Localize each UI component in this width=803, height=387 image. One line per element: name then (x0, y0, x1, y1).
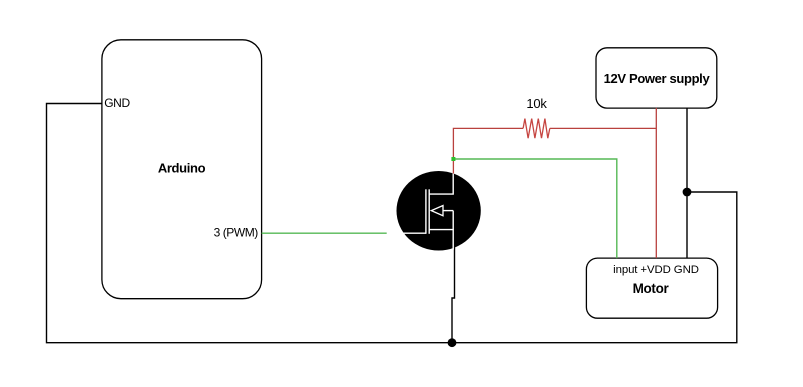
wire +12V: power supply to Motor +VDD pin (red) (655, 108, 657, 258)
Q1 gate bar (425, 189, 427, 234)
Q1 drain connection (top) (429, 174, 453, 195)
pin label GND (Arduino) (104, 96, 130, 110)
block U1 Arduino (102, 40, 262, 299)
wire drain node to Motor input pin (green) (453, 159, 616, 258)
Q1 body arrow (431, 206, 453, 216)
svg-text:Arduino: Arduino (158, 160, 206, 175)
Q1 gate lead (404, 232, 426, 234)
svg-text:GND: GND (104, 96, 130, 110)
junction: source to ground bus (448, 338, 457, 347)
wire power supply GND down to Motor GND pin (686, 108, 688, 258)
Q1 source connection (bottom) (429, 211, 453, 250)
wire GND: Arduino GND left, down, along bottom, up right side to node (47, 104, 737, 343)
label Motor (633, 281, 670, 296)
svg-text:Motor: Motor (633, 281, 670, 296)
wire gate: Arduino pin 3 (PWM) to MOSFET gate (green) (262, 232, 387, 234)
svg-text:input +VDD GND: input +VDD GND (613, 264, 699, 276)
svg-text:12V Power supply: 12V Power supply (604, 71, 711, 86)
label Arduino (158, 160, 206, 175)
svg-text:3 (PWM): 3 (PWM) (214, 226, 259, 240)
wire resistor right lead to +12V rail (red) (550, 127, 657, 129)
svg-text:10k: 10k (526, 96, 547, 111)
wire MOSFET source down to ground bus (with jog) (452, 248, 455, 343)
junction: green tap on drain wire (451, 157, 455, 161)
pin labels input +VDD GND (Motor) (613, 264, 699, 276)
junction: GND node at power supply branch (683, 188, 692, 197)
transistor Q1 MOSFET body (397, 171, 481, 251)
block M1 Motor (586, 258, 717, 318)
resistor R1 10k (523, 119, 550, 139)
label 12V Power supply (604, 71, 711, 86)
Q1 channel bar (428, 189, 430, 234)
value label 10k (526, 96, 547, 111)
pin label 3 (PWM) (214, 226, 259, 240)
wire resistor left lead to MOSFET drain (red) (453, 128, 523, 173)
block PS1 12V Power supply (596, 48, 717, 108)
